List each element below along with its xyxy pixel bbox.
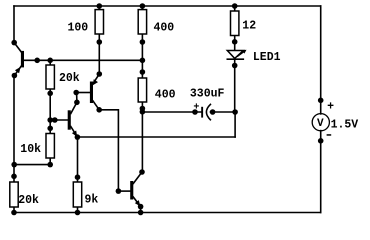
node Q3 collector [139,169,145,175]
svg-text:LED1: LED1 [253,51,281,64]
wire bottom rail [14,212,321,214]
battery V1 circle [312,114,329,131]
svg-text:V: V [317,118,324,130]
resistor R400a [138,10,146,34]
node above R400b [140,69,146,75]
node Q1 collector rail [11,40,17,46]
resistor R400b [138,78,146,102]
wire right rail lower [320,131,322,213]
wire left rail bottom stub [13,207,15,213]
resistor R12 [231,11,239,36]
resistor 20k upper [46,65,54,89]
wire 9k bottom stub [77,207,79,213]
wire below R100 to Q4 [98,34,100,74]
wire cap corner vertical [234,112,236,137]
node cap LED junction [232,109,238,115]
wire R400a to R400b [141,34,143,78]
svg-text:20k: 20k [59,72,80,85]
LED LED1 [227,50,246,60]
node above 10k [47,126,53,132]
svg-text:20k: 20k [18,194,39,207]
wire R100 chain vertical [98,6,100,10]
node below 20k upper [47,91,53,97]
node Q4 emitter top [97,71,103,77]
node rail-R12 [232,3,238,9]
wire Q2 base [50,119,67,121]
wire Q3 emitter stub to rail [140,207,142,213]
wire right rail upper [320,6,322,114]
svg-text:400: 400 [155,88,176,101]
wire left rail upper segment [13,6,15,43]
node below R12 [232,39,238,45]
svg-text:12: 12 [242,19,256,32]
wire LED down to cap junction [234,59,236,112]
capacitor C1 330uF plus plate [201,107,203,118]
capacitor C1 curved plate [206,104,210,119]
svg-text:9k: 9k [85,194,99,207]
wire Q2 emitter down to 9k [77,137,79,182]
wire R400b down to Q3 collector [141,102,143,172]
node below LED [232,63,238,69]
node below R400b [140,106,146,112]
node rail 9k [75,210,81,216]
wire emitter bus y=137 [77,136,235,138]
wire Q4 base to Q2 collector link [76,93,78,103]
node below R100 [97,39,103,45]
wire R400 chain top stub [141,6,143,10]
wire top rail [14,5,321,7]
wire R12 top stub [234,6,236,11]
resistor 20k lower [10,182,18,207]
node left rail 10k link [11,162,17,168]
transistor Q1 (left PNP) [14,43,24,76]
node Q1 emitter rail [12,73,18,79]
node cap right [210,109,216,115]
node above 20k lower [11,174,17,180]
wire Q3 base [118,190,130,192]
node above 9k [75,174,81,180]
node cap left [192,109,198,115]
wire 20k1 stub from bus [49,60,51,65]
label battery minus [327,134,332,136]
wire cap right lead [211,111,236,113]
node bus dot 20k [47,58,53,64]
svg-text:400: 400 [154,22,175,35]
wire base bus y=60 [23,59,142,61]
node battery bottom [318,138,324,144]
node bus dot A [34,58,40,64]
node rail-R400a [140,3,146,9]
node below R400a [140,39,146,45]
node Q3 emitter [138,204,144,210]
resistor R100 [95,10,103,34]
wire Q4 collector corner horizontal [99,110,118,191]
svg-text:330uF: 330uF [190,88,225,101]
transistor Q2 (NPN, emitter to 9k) [68,102,78,137]
wire R12 to LED [234,36,236,51]
node cap junction chain [140,109,146,115]
wire left rail lower segment [13,76,15,183]
node Q3 base [116,188,122,194]
node below 10k [47,162,53,168]
svg-text:1.5V: 1.5V [331,119,359,132]
wire 10k bottom stub [49,158,51,165]
svg-text:+: + [327,101,334,114]
node battery top [318,98,324,104]
svg-text:10k: 10k [20,143,41,156]
node Q2 emitter junction [75,134,81,140]
resistor 9k [73,182,81,207]
node Q4 collector corner [96,107,102,113]
transistor Q3 (NPN, bottom) [130,172,142,207]
node bus end at R400 chain [140,58,146,64]
node Q2 base A [47,117,53,123]
svg-text:100: 100 [68,22,89,35]
wire Q4 base [76,92,90,94]
node Q2 collector [74,100,80,106]
wire cap left lead [142,111,201,113]
node rail-R100 [97,3,103,9]
node Q2 base B [52,117,58,123]
wire 20k1 down to 10k [49,89,51,134]
node rail 20k lower [11,210,17,216]
wire 10k to left rail [14,164,50,166]
resistor 10k [46,134,54,159]
transistor Q4 (PNP, middle) [90,74,99,110]
node rail below Q3 [138,210,144,216]
node Q4 base [73,90,79,96]
